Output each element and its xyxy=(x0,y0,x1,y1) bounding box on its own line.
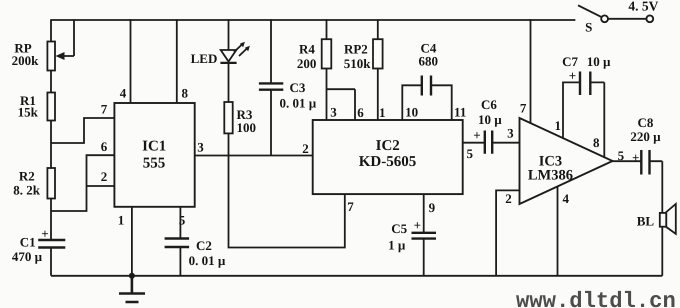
wire R4 branch xyxy=(326,19,328,39)
wire IC1 pin5 to C2 xyxy=(179,207,181,238)
svg-text:LM386: LM386 xyxy=(528,168,573,184)
resistor R3 xyxy=(224,102,232,133)
svg-text:S: S xyxy=(585,19,592,34)
svg-text:LED: LED xyxy=(191,51,218,66)
svg-text:11: 11 xyxy=(454,104,466,119)
capacitor C2 xyxy=(165,239,190,248)
capacitor C5 xyxy=(412,233,437,239)
wire LED to R3 xyxy=(228,63,230,102)
svg-text:555: 555 xyxy=(143,156,166,172)
svg-text:15k: 15k xyxy=(18,105,39,120)
switch S xyxy=(578,5,602,17)
op-amp IC1 555 box xyxy=(114,103,194,207)
svg-text:C1: C1 xyxy=(20,235,36,250)
wire RP2 to IC2 pin1 xyxy=(377,69,379,121)
svg-text:1: 1 xyxy=(379,105,386,120)
svg-text:8: 8 xyxy=(593,135,600,150)
wire top supply rail xyxy=(51,19,575,21)
op-amp IC2 KD-5605 box xyxy=(313,120,463,194)
wire C4 loop pin11 side xyxy=(431,85,452,120)
wire switch to battery xyxy=(608,18,646,20)
wire LED branch from top rail xyxy=(228,19,230,50)
svg-text:6: 6 xyxy=(101,139,108,154)
wire C4 loop pin10 side xyxy=(402,85,422,120)
svg-text:7: 7 xyxy=(520,101,527,116)
wire left rail segments xyxy=(50,19,52,276)
svg-text:3: 3 xyxy=(507,125,514,140)
svg-text:BL: BL xyxy=(637,214,655,229)
svg-text:C3: C3 xyxy=(290,80,306,95)
wire C5 to ground rail xyxy=(423,239,425,276)
resistor R2 xyxy=(47,168,55,199)
wire RP2 branch xyxy=(377,19,379,39)
svg-text:+: + xyxy=(41,226,48,241)
svg-text:0. 01 µ: 0. 01 µ xyxy=(189,253,226,268)
svg-text:100: 100 xyxy=(237,120,257,135)
svg-text:C8: C8 xyxy=(638,115,654,130)
svg-text:2: 2 xyxy=(505,191,512,206)
ground xyxy=(119,276,145,302)
svg-text:10: 10 xyxy=(405,104,418,119)
battery terminal xyxy=(646,15,653,22)
wire IC1 pin8 xyxy=(176,19,178,103)
wire R4 to IC2 pin3 and pin6 xyxy=(327,69,356,121)
svg-text:8. 2k: 8. 2k xyxy=(13,183,41,198)
svg-text:5: 5 xyxy=(618,148,625,163)
wire C3 to pin3 wire xyxy=(270,90,272,156)
resistor RP2 xyxy=(373,39,383,68)
svg-text:680: 680 xyxy=(418,54,438,69)
svg-text:0. 01 µ: 0. 01 µ xyxy=(280,96,317,111)
svg-text:+: + xyxy=(569,68,576,83)
svg-text:C6: C6 xyxy=(481,97,497,112)
resistor RP xyxy=(47,42,55,71)
svg-text:+: + xyxy=(632,150,639,165)
wire speaker to ground rail xyxy=(661,227,663,276)
wire IC3 pin1 to C7 xyxy=(563,82,580,138)
svg-text:KD-5605: KD-5605 xyxy=(359,154,417,170)
capacitor C6 xyxy=(485,131,492,154)
wire IC1 pin7 xyxy=(51,118,114,143)
svg-text:RP2: RP2 xyxy=(344,42,368,57)
svg-text:220 µ: 220 µ xyxy=(630,129,661,144)
svg-text:10 µ: 10 µ xyxy=(478,112,502,127)
wire R3 down to IC2 pin7 xyxy=(229,133,345,247)
wire IC3 pin2 xyxy=(496,190,519,275)
svg-text:1: 1 xyxy=(118,212,125,227)
wire RP wiper xyxy=(61,19,74,56)
op-amp IC3 LM386 triangle xyxy=(520,118,613,204)
wire C2 to ground rail xyxy=(179,248,181,276)
svg-text:5: 5 xyxy=(467,146,474,161)
wire IC2 pin9 to C5 xyxy=(423,194,425,232)
LED diode xyxy=(221,50,237,62)
svg-text:4: 4 xyxy=(562,191,569,206)
capacitor C8 xyxy=(641,150,649,175)
wire bottom ground rail xyxy=(51,275,662,277)
svg-text:7: 7 xyxy=(347,199,354,214)
wire C3 branch xyxy=(270,19,272,83)
svg-text:2: 2 xyxy=(101,169,108,184)
svg-text:+: + xyxy=(473,127,480,142)
resistor R1 xyxy=(47,93,55,121)
RP wiper arrowhead xyxy=(56,52,65,60)
wire IC3 pin7 to top rail xyxy=(530,19,532,123)
wire IC3 pin4 xyxy=(557,187,559,276)
wire C6 to IC3 pin3 xyxy=(492,142,519,144)
svg-text:1 µ: 1 µ xyxy=(388,238,406,253)
svg-text:470 µ: 470 µ xyxy=(12,249,43,264)
svg-text:www.dltdl.cn: www.dltdl.cn xyxy=(516,289,676,308)
wire IC3 pin5 output xyxy=(613,160,642,162)
svg-text:4. 5V: 4. 5V xyxy=(628,0,658,14)
svg-text:IC2: IC2 xyxy=(376,138,400,154)
svg-text:510k: 510k xyxy=(344,56,372,71)
speaker BL xyxy=(660,213,667,227)
wire IC1 pin3 to IC2 pin2 xyxy=(195,155,313,157)
svg-text:8: 8 xyxy=(181,86,188,101)
wire C8 to speaker xyxy=(650,161,663,213)
capacitor C7 xyxy=(580,72,590,96)
capacitor C3 xyxy=(259,83,283,89)
svg-text:7: 7 xyxy=(101,102,108,117)
svg-text:2: 2 xyxy=(302,141,309,156)
svg-text:+: + xyxy=(414,218,421,233)
wire C7 to IC3 pin8 xyxy=(590,82,604,157)
svg-text:6: 6 xyxy=(357,105,364,120)
svg-text:3: 3 xyxy=(330,104,337,119)
svg-text:4: 4 xyxy=(120,86,127,101)
svg-text:200k: 200k xyxy=(12,53,40,68)
svg-text:1: 1 xyxy=(554,118,561,133)
wire IC1 pin6 and pin2 xyxy=(51,155,114,211)
wire IC1 pin1 to ground rail xyxy=(131,207,133,276)
svg-text:IC1: IC1 xyxy=(142,139,166,155)
junction dot xyxy=(129,273,135,279)
resistor R4 xyxy=(322,39,332,68)
LED light arrows xyxy=(234,43,249,56)
wire IC1 pin4 xyxy=(130,19,132,103)
svg-text:R4: R4 xyxy=(299,41,315,56)
svg-text:9: 9 xyxy=(429,200,436,215)
svg-text:10 µ: 10 µ xyxy=(587,54,611,69)
svg-text:R2: R2 xyxy=(19,169,35,184)
svg-text:C5: C5 xyxy=(391,221,407,236)
svg-text:200: 200 xyxy=(297,56,317,71)
capacitor C4 xyxy=(422,76,431,96)
wire IC2 pin5 to C6 xyxy=(463,142,485,144)
svg-text:C7: C7 xyxy=(562,54,578,69)
svg-text:C2: C2 xyxy=(196,238,212,253)
capacitor C1 xyxy=(38,240,65,248)
svg-text:3: 3 xyxy=(197,140,204,155)
